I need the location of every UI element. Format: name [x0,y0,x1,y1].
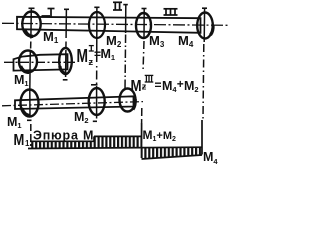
svg-text:M: M [77,46,88,66]
svg-text:=: = [155,78,162,92]
svg-text:1: 1 [25,139,30,148]
svg-text:ƶ: ƶ [89,57,94,67]
svg-text:ƶ: ƶ [142,82,147,92]
svg-text:+: + [177,77,184,91]
svg-text:M: M [131,78,142,95]
svg-text:M1+M2: M1+M2 [143,128,177,143]
svg-text:M: M [14,132,25,149]
svg-text:Эпюра М: Эпюра М [33,129,94,143]
